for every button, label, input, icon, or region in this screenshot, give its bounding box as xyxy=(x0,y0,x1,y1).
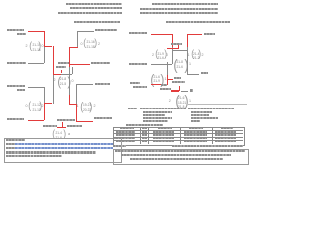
legend col1 row3 xyxy=(143,114,165,116)
3rd place right name xyxy=(67,125,82,127)
team 1 label line1 xyxy=(7,29,24,31)
table row1 texts xyxy=(116,131,135,133)
left sheet header line 1 xyxy=(66,3,122,5)
R team 3 wire xyxy=(151,84,168,85)
left sheet sub-header xyxy=(74,21,120,23)
notice title xyxy=(6,139,25,141)
left sheet header line 3 xyxy=(58,12,122,14)
R match 1v2 score braces xyxy=(155,50,158,60)
R runner-up label line1 xyxy=(174,77,181,79)
contact line 2 xyxy=(121,154,231,156)
right sheet header line 3 xyxy=(140,12,218,14)
R match 4v5 junction gray lower xyxy=(187,47,188,74)
R team 4 wire xyxy=(187,34,202,35)
champion label line2 xyxy=(56,66,66,68)
team 7 wire xyxy=(76,84,94,85)
R semifinal exit stub xyxy=(178,44,179,49)
team 7 label xyxy=(95,83,110,85)
R semifinal exit xyxy=(167,48,178,49)
contact line 1 xyxy=(115,150,245,152)
right sheet header line 2 xyxy=(140,8,218,10)
R team 2 label xyxy=(129,63,147,65)
R sf2 vertical gray xyxy=(167,62,168,75)
R semifinal bottom connector xyxy=(172,50,187,51)
right sheet separator xyxy=(188,103,247,106)
legend col2 row2 xyxy=(191,111,212,113)
team 5 label xyxy=(95,29,117,31)
team 8 wire xyxy=(28,63,44,64)
team 6 label xyxy=(91,62,110,64)
team 3 wire xyxy=(28,87,44,88)
team 3 label line2 xyxy=(17,89,25,91)
semifinal left vertical gray xyxy=(53,74,54,104)
R winner label kousiki xyxy=(171,43,182,45)
match D junction red lower xyxy=(76,104,77,121)
match D junction gray xyxy=(76,84,77,104)
final connector right gray xyxy=(61,74,73,75)
team 6 wire xyxy=(69,64,91,65)
notice box xyxy=(4,138,122,163)
legend col1 row4 xyxy=(143,117,172,119)
R runner-up label line2 xyxy=(172,81,185,83)
legend col2 row4 xyxy=(191,117,218,119)
contact label xyxy=(113,145,126,147)
semifinal left vertical red xyxy=(53,46,54,74)
results table xyxy=(113,127,245,146)
contact box xyxy=(113,149,249,165)
match B winner exit xyxy=(44,103,52,104)
3rd place score braces xyxy=(52,130,55,140)
team 4 wire xyxy=(28,120,44,121)
R team 1 wire xyxy=(151,34,172,35)
team 4 label xyxy=(7,118,25,120)
R sf2 exit xyxy=(167,79,173,80)
team 5 wire xyxy=(77,31,95,32)
notice blue line 2 xyxy=(15,147,113,149)
match A junction red upper xyxy=(44,31,45,47)
semifinal right vertical red xyxy=(69,47,70,67)
final connector left red xyxy=(53,74,62,75)
final right entry vertical xyxy=(72,67,73,74)
match C junction xyxy=(77,31,78,48)
R runner-up wire xyxy=(181,91,189,92)
team 2 wire xyxy=(76,121,94,122)
legend col1 row5 xyxy=(143,120,168,122)
match D winner exit xyxy=(69,104,77,105)
R team 2 wire xyxy=(151,64,172,65)
team 3 label line1 xyxy=(7,85,25,87)
left sheet header line 2 xyxy=(70,7,122,9)
match B score braces xyxy=(28,102,31,112)
notice blue line 1 lead xyxy=(6,143,15,145)
team 1 wire xyxy=(28,31,44,32)
R match 1v2 junction red upper xyxy=(172,34,173,48)
match C winner exit xyxy=(69,47,78,48)
match A winner exit xyxy=(44,46,52,47)
R sf2 vertical red xyxy=(167,75,168,85)
final right entry red xyxy=(69,95,70,104)
3rd place label xyxy=(57,119,75,121)
champion stub xyxy=(61,70,62,74)
note under table xyxy=(172,145,243,147)
R lower-left score braces xyxy=(150,72,154,86)
team 8 label xyxy=(7,62,26,64)
R champion label line2 xyxy=(160,88,171,90)
R match 4v5 junction red upper xyxy=(187,34,188,48)
R team 5 label xyxy=(201,72,208,74)
R team 5 wire xyxy=(187,74,200,75)
team 1 label line2 xyxy=(17,33,26,35)
match B junction gray upper xyxy=(44,87,45,103)
table row4 texts xyxy=(116,141,135,143)
legend col2 row5 xyxy=(191,120,200,122)
match A score braces xyxy=(29,42,32,52)
notice line 3 xyxy=(6,151,96,153)
table header texts xyxy=(120,128,134,130)
R team 3 label line1 xyxy=(130,82,140,84)
R team 4 label xyxy=(204,33,215,35)
R champion wire stub xyxy=(179,86,180,91)
3rd place stub xyxy=(62,122,63,127)
3rd place connector xyxy=(57,127,66,128)
R champion wire xyxy=(171,90,179,91)
legend col2 row1 xyxy=(188,108,234,110)
final score braces xyxy=(57,75,61,88)
R small mark xyxy=(190,89,193,92)
notice blue line 2 lead xyxy=(6,147,15,149)
legend col1 row2 xyxy=(143,111,172,113)
R match 1v2 junction gray lower xyxy=(172,47,173,64)
R final score braces xyxy=(175,94,179,109)
team 2 label xyxy=(94,117,112,119)
champion label line1 xyxy=(58,62,70,64)
legend title xyxy=(128,108,137,110)
table row2 texts xyxy=(116,134,135,136)
match C score braces xyxy=(83,39,86,49)
notice blue line 1 xyxy=(15,143,113,145)
contact line 3 xyxy=(130,158,223,160)
legend col2 row3 xyxy=(191,114,209,116)
R team 1 label xyxy=(129,32,147,34)
notice line 4 xyxy=(6,155,62,157)
match A junction gray lower xyxy=(44,46,45,63)
match D score braces xyxy=(80,102,83,113)
legend col1 row1 xyxy=(140,108,186,110)
3rd place left name xyxy=(43,125,57,127)
R champion label line1 xyxy=(161,84,167,86)
right sheet sub-header xyxy=(166,21,230,23)
results table title xyxy=(126,124,163,126)
R semifinal score braces xyxy=(173,58,177,73)
table row3 texts xyxy=(116,138,135,140)
semifinal right vertical gray xyxy=(69,67,70,96)
R match 4v5 score braces xyxy=(191,50,194,60)
right sheet header line 1 xyxy=(152,3,218,5)
match B junction red lower xyxy=(44,103,45,120)
R team 3 label line2 xyxy=(133,86,147,88)
